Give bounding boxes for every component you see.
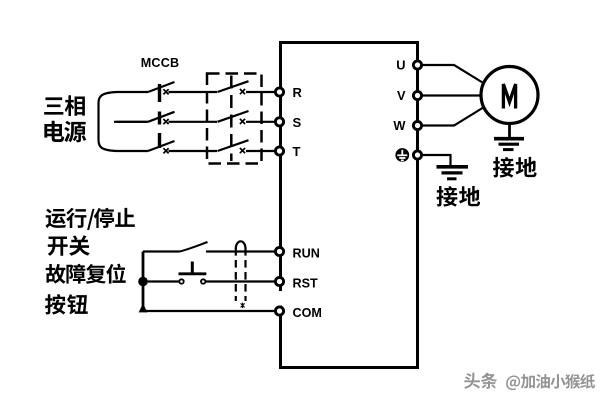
svg-text:V: V	[397, 88, 406, 103]
svg-text:COM: COM	[293, 306, 322, 320]
svg-text:R: R	[293, 85, 303, 100]
svg-text:W: W	[393, 118, 406, 133]
svg-text:U: U	[396, 58, 405, 73]
svg-text:MCCB: MCCB	[141, 56, 180, 70]
svg-text:RUN: RUN	[293, 247, 320, 261]
svg-text:T: T	[293, 144, 301, 159]
svg-text:RST: RST	[293, 277, 318, 291]
svg-text:S: S	[293, 115, 302, 130]
